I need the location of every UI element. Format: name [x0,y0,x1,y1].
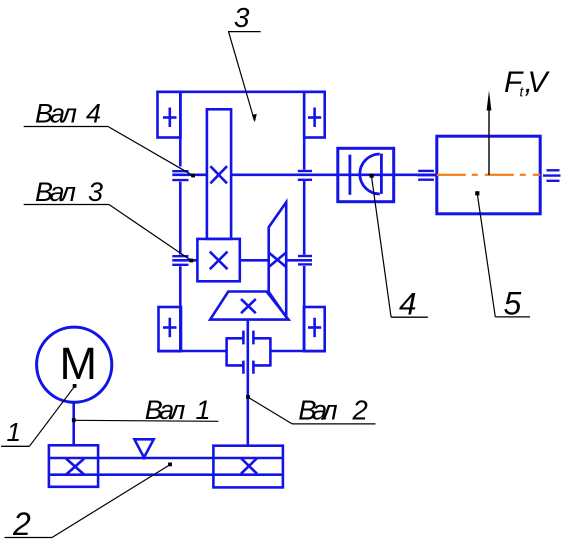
leader dot Вал 1 [72,418,76,422]
shaft 2 vertical line [247,320,250,446]
pedestal bearing left of drum (three bars) [417,171,435,180]
bevel gear on shaft 2 (horizontal trapezoid) [210,292,288,320]
leader dot Вал 3 [189,259,193,263]
svg-text:Вал2: Вал2 [298,395,368,426]
svg-text:Ft,V: Ft,V [504,66,551,100]
sprocket left [49,445,98,487]
bearing housing box bottom-right with + [304,307,325,351]
fixed joint X on shaft 2 bevel gear [241,299,256,313]
housing bottom edge [157,350,326,353]
motor shaft (shaft 1 vertical) [72,402,75,445]
leader line label 5 [477,195,495,317]
bearing left wall shaft 3 (three bars) [172,256,188,265]
svg-text:Вал3: Вал3 [35,177,103,207]
drum (component 5) [437,136,540,214]
force arrow head [487,91,492,111]
svg-text:4: 4 [399,286,417,322]
bowtie X joint on bevel gear shaft 3 [269,253,287,268]
svg-text:3: 3 [234,2,250,33]
drum centerline (orange dash-dot) [437,174,540,176]
bevel gear on shaft 3 (vertical trapezoid) [269,202,287,317]
bearing left wall shaft 4 (three bars) [172,171,188,180]
svg-text:Вал4: Вал4 [35,99,101,129]
leader dot Вал 2 [246,395,250,399]
bearing right wall shaft 3 (two bars) [298,256,312,264]
leader dot label 1 [73,384,77,388]
gear pinion on shaft 3 (square) [197,239,239,281]
svg-text:1: 1 [7,417,21,447]
coupling on shaft 2 (bottom of gearbox) [227,331,271,374]
leader dot label 4 [370,174,374,178]
sprocket right [213,446,283,488]
gear wheel on shaft 4 (tall rectangle) [207,109,231,239]
bearing right wall shaft 4 (two bars) [298,171,312,180]
fixed joint X on shaft 3 pinion [210,252,228,270]
svg-text:2: 2 [12,506,31,542]
svg-text:M: M [60,338,98,389]
shaft 4 line [172,174,437,177]
svg-text:5: 5 [504,286,522,322]
leader line label 4 [372,177,392,317]
leader dot label 5 [475,191,479,195]
motor M [37,327,112,402]
fixed joint X on right sprocket [241,458,257,474]
shaft 3 line [172,259,312,262]
leader line Вал 2 [249,398,293,424]
chain drive lines [49,458,283,475]
housing right wall [303,92,306,351]
bearing housing box bottom-left with + [159,307,182,351]
coupling U4 half-disc [360,154,382,194]
fixed joint X on shaft 4 gear [210,166,227,183]
coupling U4 box [338,148,394,201]
leader arrowhead label 3 [252,114,257,123]
housing top edge [156,91,326,94]
housing left wall [179,92,182,351]
leader line Вал 3 [109,205,191,261]
fixed joint X on left sprocket [66,459,84,475]
leader line label 2 [52,465,170,538]
coupling U4 inner plate [348,155,351,195]
leader line Вал 4 [108,127,193,176]
bearing housing box top-right with + [304,92,325,138]
bearing housing box top-left with + [158,92,181,138]
chain tension idler triangle [134,439,153,457]
leader dot Вал 4 [191,174,195,178]
leader dot label 2 [168,463,172,467]
force arrow F,V [488,106,490,175]
leader line label 1 [29,386,74,446]
pedestal bearing right of drum (three bars) [543,170,561,181]
leader line label 3 [229,32,255,121]
